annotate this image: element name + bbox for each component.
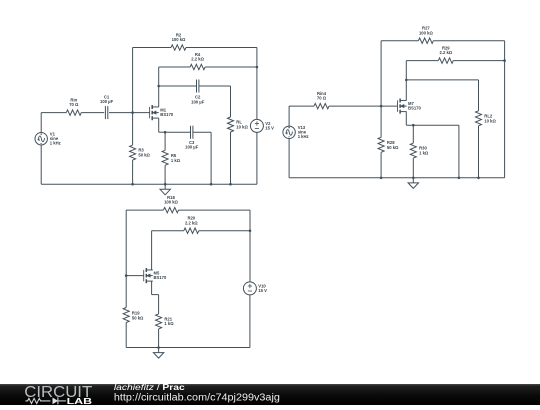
node source/R30 junction — [412, 124, 415, 127]
wire R20 right — [199, 230, 250, 232]
ground B — [412, 178, 414, 183]
wire right rail to V10 top — [249, 231, 251, 282]
node R3 bottom junction — [131, 183, 134, 186]
capacitor C2 — [196, 80, 198, 93]
wire R18 left vertical upper — [125, 210, 127, 276]
svg-text:100 kΩ: 100 kΩ — [164, 200, 178, 205]
resistor Rin4 — [314, 103, 329, 108]
svg-text:100 µF: 100 µF — [185, 145, 199, 150]
wire drain vertical M1 to R4 — [158, 67, 160, 107]
svg-text:BS170: BS170 — [160, 112, 173, 117]
wire R4 to V2 vertical — [205, 66, 257, 68]
ground A — [164, 184, 166, 189]
node ground junction C — [157, 346, 160, 349]
transistor M1 BS170 — [149, 107, 151, 118]
node gate A junction — [131, 111, 134, 114]
wire C2 to RL top — [199, 85, 231, 87]
wire C3 right to bottom — [193, 131, 211, 133]
svg-text:BS170: BS170 — [408, 106, 421, 111]
svg-text:http://circuitlab.com/c74pj299: http://circuitlab.com/c74pj299v3ajg — [114, 392, 280, 403]
voltage source V10 15V DC — [243, 282, 256, 295]
svg-text:70 Ω: 70 Ω — [317, 96, 327, 101]
wire R18 right to right rail — [179, 209, 251, 211]
svg-text:100 µF: 100 µF — [191, 99, 205, 104]
node RL2 bottom junction — [477, 177, 480, 180]
wire Rin4 to M7 gate — [329, 105, 398, 107]
wire M5 source down to R21 — [151, 281, 153, 295]
resistor RL2 — [476, 111, 482, 126]
node R4/V2 junction — [256, 66, 259, 69]
svg-text:15 V: 15 V — [258, 288, 267, 293]
logo squiggle: wire + resistor + diode — [25, 397, 66, 404]
svg-text:50 kΩ: 50 kΩ — [132, 315, 144, 320]
wire source to C3 — [165, 131, 190, 133]
wire circuit B bottom rail — [289, 177, 505, 179]
transistor M5 BS170 — [143, 270, 145, 281]
wire V1 top to Rin — [40, 113, 42, 133]
svg-text:1 kHz: 1 kHz — [50, 141, 61, 146]
wire source right down to bottom — [458, 125, 460, 178]
wire V2 bottom — [256, 132, 258, 184]
wire drain to C2 — [159, 85, 197, 87]
node R29/right rail junction — [503, 59, 506, 62]
svg-text:10 kΩ: 10 kΩ — [484, 118, 496, 123]
node RL bottom junction — [229, 183, 232, 186]
node drain branch junction B — [405, 79, 408, 82]
node ground junction B — [412, 177, 415, 180]
resistor Rin — [66, 110, 81, 115]
node gate C junction — [125, 274, 128, 277]
svg-text:1 kHz: 1 kHz — [298, 134, 309, 139]
svg-text:70 Ω: 70 Ω — [69, 102, 79, 107]
wire V10 bottom — [249, 295, 251, 348]
resistor R30 — [412, 125, 414, 143]
svg-text:LAB: LAB — [67, 396, 93, 405]
resistor R29 — [438, 58, 453, 63]
svg-text:2.2 kΩ: 2.2 kΩ — [185, 220, 198, 225]
node R20/right rail junction — [249, 229, 252, 232]
wire R2 left vertical (gate to R2) — [132, 48, 134, 113]
node source/R5 junction — [164, 131, 167, 134]
svg-text:1 kΩ: 1 kΩ — [171, 158, 181, 163]
node C3 bottom junction — [210, 183, 213, 186]
capacitor C1 — [104, 106, 106, 119]
resistor R28 — [380, 106, 382, 137]
wire drain vertical M5 to R20 — [151, 231, 153, 270]
footer bar — [0, 380, 540, 405]
svg-text:1 kΩ: 1 kΩ — [164, 321, 174, 326]
wire R29 left segment — [406, 60, 438, 62]
capacitor C3 — [190, 126, 192, 139]
wire V13 bottom — [288, 139, 290, 178]
resistor R3 — [132, 113, 134, 146]
resistor R4 — [190, 64, 205, 69]
node ground junction A — [164, 183, 167, 186]
svg-text:lachiefitz / Prac: lachiefitz / Prac — [114, 383, 185, 392]
voltage source V2 15V DC — [250, 119, 263, 132]
resistor R5 — [164, 132, 166, 150]
svg-text:10 kΩ: 10 kΩ — [236, 125, 248, 130]
voltage source V13 (sine, 1 kHz) — [283, 126, 295, 138]
node gate B junction — [380, 105, 383, 108]
resistor R18 — [164, 207, 179, 212]
resistor R21 — [158, 295, 160, 314]
svg-text:50 kΩ: 50 kΩ — [138, 153, 150, 158]
svg-text:50 kΩ: 50 kΩ — [387, 145, 399, 150]
resistor RL — [228, 117, 234, 132]
wire V1 bottom — [40, 145, 42, 184]
wire C1 to M1 gate — [109, 112, 150, 114]
resistor R19 — [125, 276, 127, 308]
wire R4 left segment — [159, 66, 190, 68]
resistor R20 — [184, 228, 199, 233]
wire circuit A bottom rail — [41, 183, 257, 185]
node source-return bottom junction — [458, 177, 461, 180]
wire M7 source down — [405, 112, 407, 126]
wire R27 left segment — [381, 40, 418, 42]
wire M1 source down — [158, 118, 160, 132]
svg-text:BS170: BS170 — [154, 275, 167, 280]
wire drain vertical M7 to R29 — [405, 61, 407, 100]
wire R27 left vertical — [380, 41, 382, 106]
wire gate C to M5 — [126, 275, 144, 277]
logo diode symbol — [53, 398, 59, 405]
wire R29 right — [453, 60, 504, 62]
wire R27 right to right rail — [433, 40, 504, 42]
resistor R2 — [171, 45, 186, 50]
ground C — [158, 348, 160, 353]
wire right rail vertical — [504, 61, 506, 178]
svg-text:2.2 kΩ: 2.2 kΩ — [439, 50, 452, 55]
transistor M7 BS170 — [397, 100, 399, 111]
wire R2 to V2 top — [186, 47, 257, 49]
wire drain branch to RL2 — [406, 79, 478, 81]
wire R20 left segment — [152, 230, 184, 232]
wire Rin to C1 — [81, 112, 104, 114]
wire R2 top left segment — [133, 47, 171, 49]
svg-text:2.2 kΩ: 2.2 kΩ — [191, 57, 204, 62]
wire V2 vertical upper — [256, 67, 258, 119]
svg-text:15 V: 15 V — [265, 126, 274, 131]
svg-text:100 kΩ: 100 kΩ — [172, 37, 186, 42]
svg-text:1 kΩ: 1 kΩ — [419, 151, 429, 156]
svg-text:100 kΩ: 100 kΩ — [419, 30, 433, 35]
svg-text:100 µF: 100 µF — [100, 99, 114, 104]
voltage source V1 (sine, 1 kHz) — [35, 133, 47, 145]
wire circuit C bottom rail — [126, 347, 250, 349]
node drain/C2 junction — [157, 85, 160, 88]
wire R18 left segment — [126, 209, 163, 211]
node R28 bottom junction — [380, 177, 383, 180]
wire V13 top to Rin4 — [288, 106, 290, 126]
resistor R27 — [418, 38, 433, 43]
